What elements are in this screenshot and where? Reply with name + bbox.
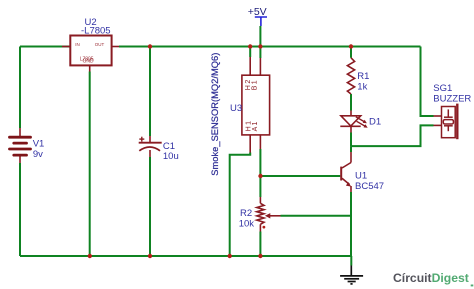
svg-text:OUT: OUT	[95, 42, 105, 47]
svg-text:+5V: +5V	[248, 6, 267, 18]
svg-text:CírcuitDigest: CírcuitDigest	[393, 271, 469, 285]
svg-text:B1: B1	[252, 80, 259, 90]
svg-text:-L7805: -L7805	[81, 26, 111, 37]
svg-text:10u: 10u	[163, 151, 179, 162]
svg-text:A1: A1	[252, 122, 259, 132]
svg-text:10k: 10k	[239, 218, 255, 229]
svg-text:SG1: SG1	[433, 83, 452, 94]
svg-text:BUZZER: BUZZER	[433, 94, 471, 105]
svg-text:V1: V1	[33, 138, 45, 149]
svg-text:BC547: BC547	[355, 181, 384, 192]
svg-text:1k: 1k	[357, 81, 367, 92]
svg-text:D1: D1	[369, 116, 381, 127]
svg-text:Smoke_SENSOR(MQ2/MQ6): Smoke_SENSOR(MQ2/MQ6)	[210, 53, 220, 176]
svg-text:U3: U3	[230, 103, 242, 114]
svg-text:9v: 9v	[33, 149, 43, 160]
svg-text:GND: GND	[83, 59, 95, 65]
svg-text:IN: IN	[75, 42, 80, 47]
